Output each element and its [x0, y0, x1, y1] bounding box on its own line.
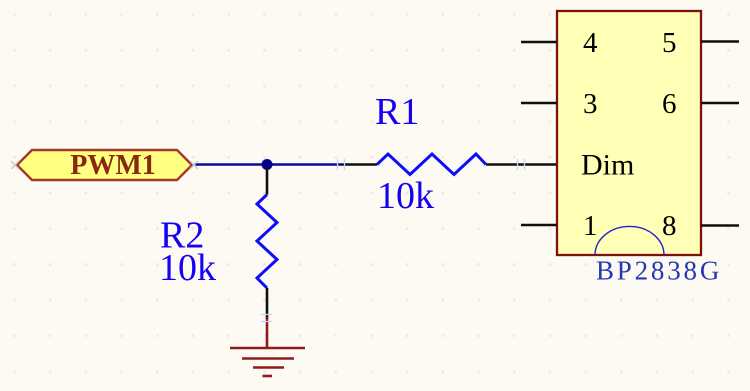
ground	[230, 317, 305, 376]
svg-text:Dim: Dim	[581, 149, 634, 182]
R1 right pin / wire to Dim pin of U1	[486, 163, 557, 166]
pin 1 (left)	[521, 224, 557, 227]
junction node	[262, 159, 273, 170]
svg-text:R1: R1	[375, 91, 419, 133]
svg-text:10k: 10k	[159, 247, 216, 289]
node hotspot mark at ground stem	[261, 315, 272, 322]
pin 5 (right)	[701, 40, 739, 43]
R1 left pin	[341, 163, 377, 166]
svg-text:6: 6	[662, 88, 677, 120]
wire PWM1 to R1	[194, 163, 341, 165]
svg-text:8: 8	[662, 210, 677, 242]
svg-text:3: 3	[583, 88, 598, 120]
pin 6 (right)	[701, 102, 739, 105]
IC notch arc	[595, 226, 664, 255]
pin 3 (left)	[521, 102, 557, 105]
pin 4 (left)	[521, 41, 557, 44]
port right tip marker	[190, 161, 198, 169]
IC U1 BP2838G body	[557, 11, 701, 255]
port PWM1	[17, 150, 192, 181]
wire junction down (R2 top pin)	[266, 167, 269, 195]
svg-text:10k: 10k	[377, 175, 434, 217]
R2 bottom pin	[266, 288, 269, 319]
port left tip marker	[11, 161, 19, 169]
svg-text:BP2838G: BP2838G	[596, 256, 722, 286]
pin 8 (right)	[701, 224, 739, 227]
node hotspot mark at R1 left pin	[338, 159, 345, 170]
resistor R2	[257, 195, 277, 289]
svg-text:PWM1: PWM1	[70, 150, 156, 181]
svg-text:1: 1	[583, 210, 598, 242]
svg-text:4: 4	[583, 27, 598, 59]
node hotspot mark at U1 Dim pin	[518, 159, 525, 170]
resistor R1	[377, 154, 486, 175]
svg-text:5: 5	[662, 27, 677, 59]
